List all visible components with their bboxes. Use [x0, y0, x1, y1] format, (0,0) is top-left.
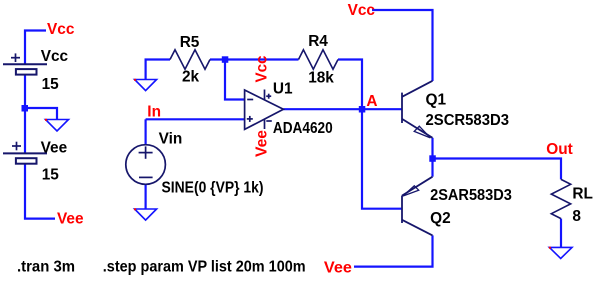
svg-text:R5: R5: [180, 34, 200, 51]
svg-text:Vin: Vin: [159, 131, 183, 148]
svg-text:Q2: Q2: [430, 210, 451, 227]
svg-text:ADA4620: ADA4620: [273, 120, 333, 137]
resistor R5: [170, 50, 210, 69]
wire R5 left lead to ground: [146, 60, 170, 81]
svg-text:U1: U1: [273, 80, 293, 97]
svg-text:SINE(0 {VP} 1k): SINE(0 {VP} 1k): [162, 179, 264, 196]
svg-text:R4: R4: [308, 33, 328, 50]
wire node A down to Q2 base: [362, 109, 401, 209]
wire op-amp output through node A to Q1 base: [283, 108, 402, 110]
wire In corner to op-amp non-inverting input: [146, 118, 245, 120]
wire top Vcc rail to Q1 collector: [372, 10, 433, 81]
wire battery V2 bottom to Vee label: [25, 164, 55, 219]
svg-text:2SCR583D3: 2SCR583D3: [426, 112, 510, 129]
svg-text:15: 15: [42, 76, 60, 93]
ground below RL: [549, 247, 572, 258]
wire Q2 collector down to Vee rail: [354, 235, 433, 266]
wire RL bottom to ground: [560, 219, 562, 248]
wire Vin bottom to ground: [145, 184, 147, 209]
svg-text:.step param VP list 20m 100m: .step param VP list 20m 100m: [103, 258, 306, 275]
svg-text:Vee: Vee: [254, 130, 271, 157]
battery V1 (Vcc): [3, 53, 47, 74]
wire mid junction to ground: [25, 108, 57, 120]
svg-text:Vcc: Vcc: [41, 48, 69, 65]
resistor R4: [299, 50, 339, 69]
wire Q1 emitter down to output junction: [431, 138, 433, 159]
voltage source Vin: [126, 145, 166, 185]
junction output node: [429, 155, 436, 162]
junction battery midpoint: [22, 105, 29, 112]
svg-text:RL: RL: [572, 186, 593, 203]
svg-text:.tran 3m: .tran 3m: [17, 258, 75, 275]
transistor Q1 (NPN): [402, 81, 433, 138]
svg-text:Vcc: Vcc: [47, 21, 75, 38]
ground near battery midpoint: [46, 120, 69, 132]
svg-text:A: A: [366, 93, 377, 110]
wire junction down to op-amp inverting input: [225, 60, 245, 100]
svg-text:Vee: Vee: [41, 139, 68, 156]
resistor RL (vertical): [551, 179, 570, 218]
svg-text:Q1: Q1: [426, 92, 447, 109]
svg-text:Vcc: Vcc: [254, 55, 271, 82]
op-amp U1: [245, 90, 284, 130]
wire Vcc label to battery V1 top: [25, 31, 46, 65]
svg-text:15: 15: [42, 167, 60, 184]
svg-text:Out: Out: [546, 141, 573, 158]
wire battery V1 bottom to battery V2 top: [24, 75, 26, 153]
ground below Vin: [135, 209, 157, 220]
svg-text:In: In: [147, 103, 161, 120]
junction R5/R4/op-amp node: [222, 56, 229, 63]
wire output junction to Q2 emitter: [431, 159, 433, 177]
svg-text:8: 8: [572, 208, 581, 225]
svg-text:Vee: Vee: [57, 210, 84, 227]
ground below R5: [135, 80, 157, 91]
svg-text:Vee: Vee: [324, 260, 352, 277]
svg-text:Vcc: Vcc: [348, 2, 376, 19]
wire R4 right down to node A: [338, 60, 362, 110]
svg-text:2k: 2k: [182, 69, 200, 86]
transistor Q2 (PNP): [402, 177, 433, 236]
junction node A: [359, 106, 366, 113]
wire output junction to RL top: [433, 159, 562, 180]
wire In corner down to Vin top: [145, 119, 147, 145]
wire R5 right to R4 left (through junction): [210, 58, 299, 60]
svg-text:2SAR583D3: 2SAR583D3: [430, 187, 512, 204]
svg-text:18k: 18k: [308, 70, 334, 87]
battery V2 (Vee): [3, 142, 47, 164]
